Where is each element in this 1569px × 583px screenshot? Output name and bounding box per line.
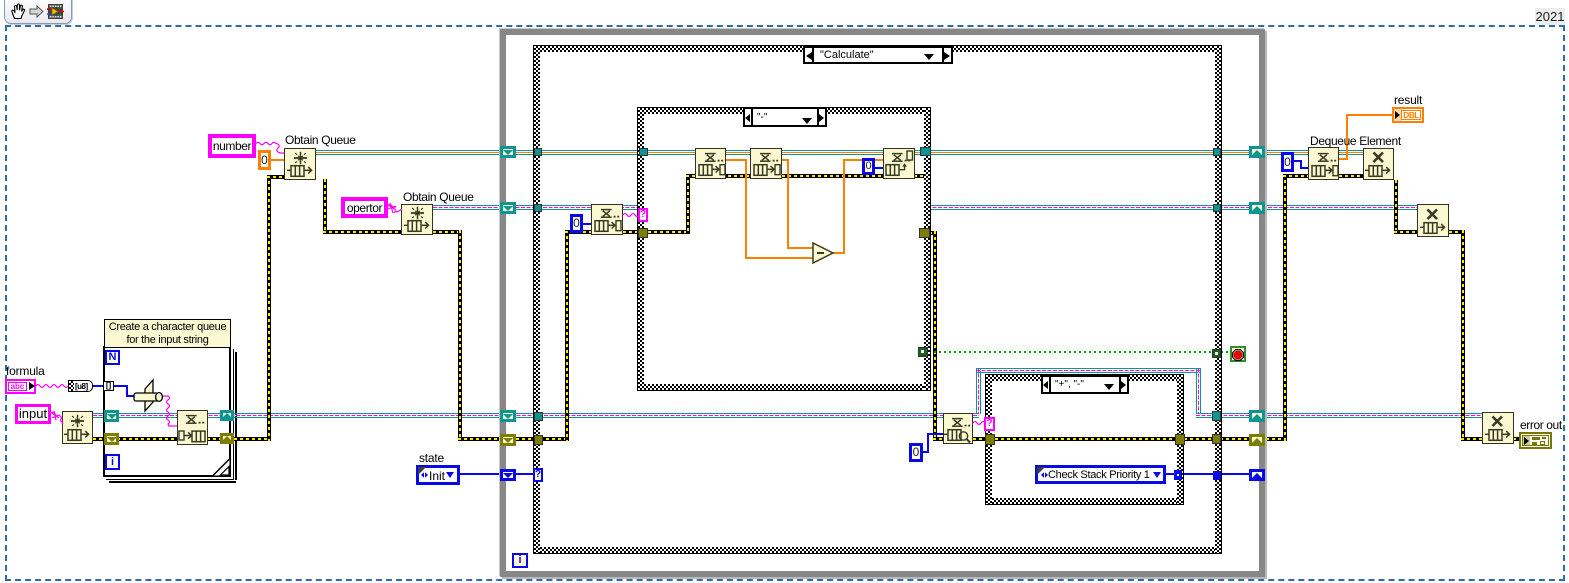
- tunnel: queue1 case right: [1213, 148, 1221, 156]
- wire: opertor-queue (teal/magenta) left segment: [433, 205, 641, 210]
- indicator: result (DBL): [1392, 107, 1424, 123]
- label: Obtain Queue (opertor): [403, 191, 474, 203]
- constant 0 (timeout, preview): [909, 443, 923, 462]
- case structure Calculate border: [533, 45, 1222, 554]
- string to byte array node [u8]: [68, 380, 93, 392]
- subtract node: [812, 242, 835, 265]
- for loop SR right error: [220, 433, 234, 444]
- wire: error inside inner case: [648, 230, 690, 234]
- wire: error for-loop to riser: [234, 437, 270, 441]
- SR right: state: [1249, 469, 1265, 481]
- tunnel: boolean case right: [1212, 349, 1221, 358]
- wire: error RQ3 to error out: [1513, 437, 1522, 441]
- wire: number-queue (teal/orange) main run: [316, 150, 1365, 155]
- tunnel: queue1 inner case right: [920, 147, 931, 156]
- Obtain Queue node OQ1 (number): [284, 148, 316, 180]
- wire: error while to final dequeue: [1266, 437, 1286, 441]
- Dequeue Element dq1 (inner case): [695, 148, 726, 179]
- wire: boolean stop (green dotted): [929, 351, 1214, 353]
- enum constant: Check Stack Priority 1: [1035, 465, 1166, 484]
- toolbar run arrow icon: [29, 5, 44, 18]
- wire: error case2 to while border: [1184, 437, 1250, 441]
- label: formula: [6, 365, 45, 377]
- SR right: error: [1249, 434, 1265, 446]
- wire: blue 0 to case dequeue: [583, 223, 591, 225]
- wire: type cast to enqueue: [163, 396, 177, 426]
- wire: blue 0 to final dequeue: [1294, 160, 1302, 162]
- Dequeue Element node (final, result): [1308, 147, 1339, 180]
- tunnel: queue3 case right: [1212, 411, 1221, 421]
- for loop border with stacked pages: [103, 346, 231, 477]
- for loop SR left queue: [104, 410, 119, 422]
- constant 0 (orange, queue size): [258, 150, 271, 170]
- Obtain Queue node (input string queue): [62, 411, 93, 444]
- year label 2021: [1535, 8, 1565, 25]
- Dequeue Element node (case selector feed): [591, 204, 623, 235]
- wire: orange dq2 to subtract: [782, 159, 789, 161]
- tunnel: error case2 left: [985, 434, 995, 445]
- wire: input-queue bypass riser left: [976, 368, 981, 414]
- tunnel: enum case2 right: [1174, 470, 1182, 480]
- wire: error inside while to dequeue: [516, 437, 568, 441]
- toolbar hand icon: [9, 2, 27, 21]
- wire: error OQ1 down to OQ2: [323, 179, 327, 234]
- wire: orange dq1 to subtract: [726, 159, 747, 161]
- wire: orange 0 to OQ1: [271, 159, 284, 161]
- tunnel: [] auto-index on for loop: [103, 381, 114, 391]
- for loop N terminal: [105, 350, 120, 365]
- label: Dequeue Element: [1310, 135, 1401, 147]
- tunnel: error inner case left: [638, 228, 648, 238]
- wire: error input-OQ through for loop: [93, 437, 235, 441]
- SR left: state: [500, 469, 516, 481]
- tunnel: boolean inner case right: [918, 347, 928, 357]
- SR right: queue2: [1249, 202, 1265, 214]
- inner case "-" border: [637, 107, 931, 391]
- for loop stacked page lines: [233, 349, 235, 479]
- selector: "-": [743, 107, 827, 127]
- wire: input to Obtain Queue: [51, 411, 63, 424]
- SR left: queue2: [500, 202, 516, 214]
- wire: preview to case2 selector: [973, 422, 985, 425]
- tunnel: enum case right: [1213, 471, 1221, 480]
- for loop i terminal: [105, 454, 120, 470]
- Release Queue node RQ2: [1417, 204, 1449, 237]
- tunnel: case2 selector ?: [984, 417, 995, 431]
- wire: blue 0 to enqueue timeout: [875, 167, 883, 169]
- Preview Queue Element node: [943, 413, 973, 444]
- icon symbol definitions: [0, 0, 1, 1]
- constant 0 (timeout, case dequeue): [570, 214, 583, 233]
- wire: dequeue to inner selector: [623, 214, 639, 217]
- for loop SR left error: [104, 433, 119, 445]
- SR left: error: [500, 434, 516, 446]
- SR right: queue3: [1249, 410, 1265, 422]
- tunnel: queue1 case left: [534, 148, 542, 156]
- wire: blue 0 to preview: [923, 451, 929, 453]
- wire: error OQ2 to while loop: [433, 230, 461, 234]
- wire: error RQ2 down to RQ3: [1449, 230, 1465, 234]
- wire: error RQ1 down to RQ2: [1394, 180, 1398, 234]
- Dequeue Element dq2 (inner case): [750, 148, 782, 179]
- wire: orange subtract to enqueue: [833, 252, 845, 254]
- wire: error dequeue to inner case: [623, 230, 643, 234]
- wire: input-queue bypass top run: [976, 368, 1201, 373]
- SR left: queue1: [500, 146, 516, 158]
- tunnel: case selector ? (state): [533, 468, 543, 482]
- wire: input-queue bypass riser right: [1196, 368, 1201, 414]
- stop terminal: [1230, 346, 1246, 362]
- wire: error for-loop up to Obtain Queue 1: [267, 175, 271, 441]
- enum control: state (Init): [416, 465, 460, 485]
- tunnel: error inner case right: [919, 228, 930, 238]
- wire: orange dequeue to result: [1339, 158, 1348, 160]
- wire: opertor-queue right segment: [927, 205, 1417, 210]
- label: error out: [1520, 419, 1562, 431]
- wire: state into case selector: [516, 473, 536, 475]
- control: input: [15, 404, 51, 424]
- constant 0 (timeout, enqueue opp): [862, 158, 875, 175]
- while loop border: [500, 29, 1265, 577]
- label: state: [419, 452, 444, 464]
- wire: error dequeue to release queue 1: [1339, 174, 1364, 178]
- Enqueue Element At Opposite End node: [883, 148, 915, 179]
- wire: blue string-to-byte-array to [] tunnel: [92, 385, 104, 387]
- control: number: [208, 134, 256, 158]
- SR left: queue3: [500, 410, 516, 422]
- Release Queue node RQ3: [1482, 412, 1514, 444]
- while loop i terminal: [512, 553, 528, 568]
- wire: state enum to while loop (blue): [460, 473, 502, 475]
- inner case "+","-" border: [985, 374, 1184, 505]
- wire: opertor to OQ2: [388, 203, 402, 213]
- control: formula (abc): [5, 379, 36, 394]
- toolbar VI icon: [47, 3, 64, 20]
- wire: error out of inner case down to preview: [929, 231, 937, 235]
- tunnel: queue3 case left: [534, 412, 543, 421]
- indicator: error out: [1519, 432, 1552, 449]
- selector: "+","-": [1041, 375, 1129, 394]
- wire: error preview into case2: [973, 437, 987, 441]
- label: result: [1394, 94, 1422, 106]
- tunnel: queue1 inner case left: [639, 148, 648, 156]
- constant 0 (timeout, final dequeue): [1281, 152, 1294, 172]
- wire: input-queue from for loop to preview node: [93, 413, 979, 418]
- type cast funnel: [131, 378, 169, 416]
- Release Queue node RQ1: [1363, 148, 1394, 180]
- tunnel: inner case selector ?: [638, 208, 648, 222]
- tunnel: error case left: [534, 435, 543, 445]
- Obtain Queue node OQ2 (opertor): [401, 204, 433, 235]
- wire: input-queue to release queue 3: [1196, 413, 1482, 418]
- control: opertor: [341, 197, 388, 218]
- tunnel: error case2 right: [1175, 434, 1185, 445]
- Enqueue Element node (for loop): [177, 410, 208, 445]
- wire: error across case2: [995, 437, 1177, 441]
- tunnel: queue2 case right: [1213, 204, 1221, 212]
- for loop SR right queue: [220, 410, 234, 421]
- wire: Check Stack Priority enum out: [1166, 473, 1177, 475]
- for loop page curl: [213, 459, 230, 476]
- SR right: queue1: [1249, 146, 1265, 158]
- tunnel: error case right: [1212, 434, 1221, 444]
- wire: blue array from [] tunnel to type cast: [113, 385, 128, 387]
- wire: formula to [u8]: [36, 385, 68, 388]
- label: Obtain Queue (number): [285, 134, 356, 146]
- selector: "Calculate": [803, 46, 953, 64]
- comment box: create a character queue: [104, 319, 231, 348]
- tunnel: queue2 case left: [534, 204, 542, 212]
- wire: number to OQ1 (wavy): [256, 142, 284, 153]
